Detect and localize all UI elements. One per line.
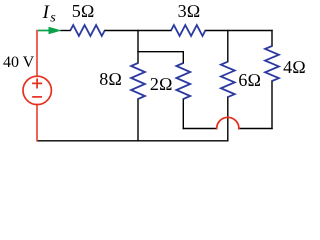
svg-text:4Ω: 4Ω	[283, 57, 306, 77]
svg-text:40 V: 40 V	[3, 54, 35, 71]
svg-text:6Ω: 6Ω	[238, 70, 261, 90]
svg-text:8Ω: 8Ω	[99, 69, 122, 89]
svg-text:s: s	[50, 10, 56, 25]
svg-text:2Ω: 2Ω	[150, 74, 173, 94]
svg-text:5Ω: 5Ω	[72, 1, 95, 21]
svg-text:3Ω: 3Ω	[178, 1, 201, 21]
